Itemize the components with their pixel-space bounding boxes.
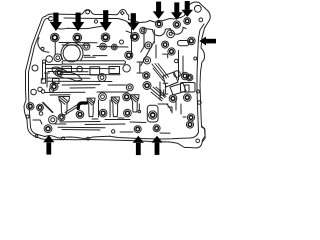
bolt right pair lower A bbox=[169, 95, 177, 103]
T pin mid right bbox=[137, 62, 143, 73]
teardrop hole bbox=[41, 47, 44, 50]
upper ledge line 3 bbox=[97, 46, 128, 49]
rim hole right mid2 bbox=[197, 90, 200, 93]
double circle top mid lower bbox=[143, 57, 150, 64]
top tab diamond hole bbox=[121, 11, 125, 15]
mid line lower 2 bbox=[50, 94, 70, 96]
double circle right of big circle bbox=[83, 43, 90, 50]
bolt lower mid E bbox=[124, 109, 132, 117]
left mid small box bbox=[53, 79, 60, 84]
plate block right bbox=[181, 83, 196, 93]
long vertical line right bbox=[178, 51, 180, 81]
thin pin near pad bbox=[138, 104, 141, 113]
teardrop lobe below corner bbox=[38, 38, 49, 53]
double circle lower left bbox=[49, 116, 57, 124]
ladder line 4 bbox=[58, 74, 120, 76]
bolt above B1 bbox=[44, 125, 52, 133]
arrow A4 top bbox=[127, 13, 139, 30]
bolt center bbox=[98, 74, 106, 82]
lever arm below big circle bbox=[52, 67, 82, 81]
bolt right stack A bbox=[187, 114, 194, 121]
right area small steps bbox=[168, 107, 186, 117]
black elbow pipe bbox=[78, 103, 86, 109]
right edge small hole bbox=[194, 57, 197, 60]
separator plate vertical mid bbox=[141, 29, 144, 53]
pad rounded rect bbox=[147, 105, 158, 122]
plate hook curve right bbox=[161, 90, 171, 111]
bolt above B2 bbox=[134, 126, 141, 133]
small circle near plate bbox=[120, 40, 124, 44]
small circle plate right bbox=[175, 59, 179, 63]
bolt mid-left dark bbox=[55, 69, 63, 77]
small circle top area bbox=[94, 20, 97, 23]
bolt under A5 bbox=[155, 20, 162, 27]
circle left small c bbox=[49, 88, 53, 92]
upper ledge line 2 bbox=[62, 44, 90, 46]
plate vertical line right2 bbox=[182, 56, 184, 76]
inner rim line bottom right bbox=[110, 132, 199, 139]
arrow A2 top bbox=[72, 13, 84, 32]
rim hole left lower bbox=[26, 115, 29, 118]
inner rim line right bbox=[197, 24, 204, 132]
vertical rod left bbox=[43, 62, 46, 80]
bracket right small bbox=[163, 54, 168, 58]
plate vertical at 154.5 bbox=[154, 30, 156, 58]
bolt lower mid C bbox=[123, 93, 131, 101]
valve bottle 2 bbox=[111, 97, 119, 117]
valve bottle 4 bbox=[131, 95, 139, 112]
small rect B bbox=[90, 67, 100, 75]
rim small circle 1 bbox=[62, 137, 65, 140]
bolt right stack B bbox=[186, 121, 193, 128]
double circle small left B bbox=[54, 54, 62, 62]
bolt mid right dark bbox=[143, 82, 151, 90]
bolt right col C bbox=[181, 72, 189, 80]
rim small circle 4 bbox=[35, 135, 38, 138]
ladder line 3 bbox=[48, 71, 88, 73]
small rect A bbox=[62, 66, 72, 72]
bolt lower mid A bbox=[76, 111, 84, 119]
inner rim line bottom left bbox=[36, 134, 110, 138]
circle mid right plain bbox=[123, 65, 130, 72]
top tab hole 1 bbox=[86, 10, 90, 14]
ladder line 5 bbox=[47, 77, 90, 79]
bolt lower mid B bbox=[99, 93, 107, 101]
left lower bracket bbox=[33, 120, 66, 124]
valve bottle 3 (left) bbox=[59, 97, 70, 115]
diagonal linkage rod bbox=[43, 103, 53, 113]
hatched wedge lower bbox=[150, 87, 166, 101]
bolt right col B bbox=[168, 48, 175, 55]
bolt under A3 bbox=[101, 33, 110, 42]
mid ladder extra lines bbox=[62, 85, 126, 88]
left edge tab hole 1 bbox=[32, 65, 38, 71]
bolt right col A bbox=[162, 41, 169, 48]
circle lower left plain bbox=[39, 112, 43, 116]
bolt under A4 bbox=[131, 33, 140, 42]
double circle mid A bbox=[100, 43, 107, 50]
bolt right col D bbox=[186, 74, 193, 81]
arrow A7 top bbox=[181, 1, 193, 17]
rod bottom box bbox=[41, 79, 45, 83]
arrow B3 bottom bbox=[151, 136, 162, 155]
arrow right pointing left bbox=[199, 37, 216, 46]
diagonal line mid bbox=[141, 42, 154, 66]
double circle mid right B bbox=[126, 84, 133, 91]
circle mid small bbox=[77, 66, 83, 72]
big circle upper-left bbox=[63, 45, 80, 62]
pin stud left bbox=[45, 73, 50, 87]
arrow A1 top bbox=[50, 13, 62, 31]
ladder line 6 bbox=[47, 80, 112, 82]
arrow A5 top bbox=[153, 2, 165, 19]
circle small left A bbox=[46, 56, 53, 63]
top-right tab small hole bbox=[199, 18, 203, 22]
double circle mid B bbox=[111, 44, 117, 50]
arrow A6 top bbox=[171, 2, 183, 20]
arrow B1 bottom bbox=[43, 135, 54, 155]
bolt lower left dark bbox=[58, 114, 65, 121]
lower ledge line right bbox=[130, 121, 146, 124]
lower ledge lines bbox=[60, 120, 130, 125]
diagonal double rod bbox=[65, 105, 79, 115]
right edge rim hole mid bbox=[198, 101, 202, 105]
bolt at right arrow bbox=[188, 37, 196, 45]
trapezoid shape right-middle bbox=[163, 72, 178, 87]
bolt under A1 bbox=[51, 33, 60, 42]
ladder line 2 bbox=[46, 67, 115, 69]
corner tab hole bbox=[196, 139, 200, 143]
upper ledge line 1 bbox=[59, 42, 97, 44]
circle left edge small b bbox=[41, 90, 45, 94]
top-right tab big hole bbox=[194, 5, 201, 12]
label c bbox=[49, 17, 53, 21]
double circle top mid bbox=[145, 42, 152, 49]
rim small circle 2 bbox=[87, 137, 90, 140]
bolt under A2 bbox=[73, 33, 82, 42]
plate block notch bbox=[185, 85, 189, 92]
right area texture lines bbox=[158, 82, 181, 114]
bolt left edge dark bbox=[27, 103, 34, 110]
bolt mid dark left bbox=[50, 83, 58, 91]
separator plate vertical left bbox=[131, 25, 133, 58]
arrow B2 bottom bbox=[133, 136, 144, 155]
double circle right of A4 bbox=[140, 27, 146, 33]
inner rim line top bbox=[64, 18, 130, 24]
bolt mid right upper2 bbox=[143, 72, 150, 79]
bolt under A6 bbox=[173, 21, 180, 28]
bolt above B3 bbox=[153, 125, 160, 132]
lower ledge double line bbox=[58, 127, 105, 130]
bolt right pair lower B bbox=[184, 94, 192, 102]
rim small circle 3 bbox=[112, 130, 115, 133]
hatched wedge upper bbox=[152, 64, 169, 82]
separator plate top edge scalloped bbox=[144, 27, 186, 36]
capsule slot bbox=[62, 61, 126, 64]
inner rim line left bbox=[29, 19, 49, 135]
second rim wavy line bbox=[57, 26, 105, 29]
slot capsule right bbox=[178, 41, 190, 46]
ladder line 1 bbox=[46, 64, 62, 66]
diagonal link at A4 bbox=[126, 31, 131, 33]
bolt dark mid bbox=[125, 51, 133, 59]
left edge tab hole 2 bbox=[31, 89, 37, 95]
big circle outer boss arc bbox=[61, 42, 83, 60]
trapezoid 2 bbox=[170, 83, 186, 95]
valve bottle 1 bbox=[87, 98, 95, 117]
bolt lower mid D bbox=[99, 109, 107, 117]
lower mid connector lines bbox=[92, 118, 124, 119]
I beam right bbox=[163, 83, 168, 94]
broken double line upper bbox=[84, 55, 107, 57]
right fin bbox=[202, 127, 206, 142]
small rect C bbox=[109, 67, 120, 74]
mid lines lower bbox=[45, 91, 128, 94]
bolt under A7 bbox=[184, 18, 191, 25]
bolt big on pad bbox=[149, 111, 157, 119]
valve body outer outline bbox=[24, 2, 210, 148]
circle right col plain bbox=[174, 71, 181, 78]
arrow A3 top bbox=[100, 10, 112, 31]
channel lines between bottles bbox=[99, 100, 111, 117]
stem line below A1 bolt bbox=[54, 42, 56, 55]
circle left edge small a bbox=[38, 87, 42, 91]
double circle right big bbox=[167, 30, 175, 38]
rod top circle bbox=[42, 60, 45, 63]
bolt mid right upper dark bbox=[145, 59, 147, 61]
ledge step lines near B2 bbox=[120, 132, 170, 133]
bolt left edge dark 2 bbox=[37, 104, 44, 111]
